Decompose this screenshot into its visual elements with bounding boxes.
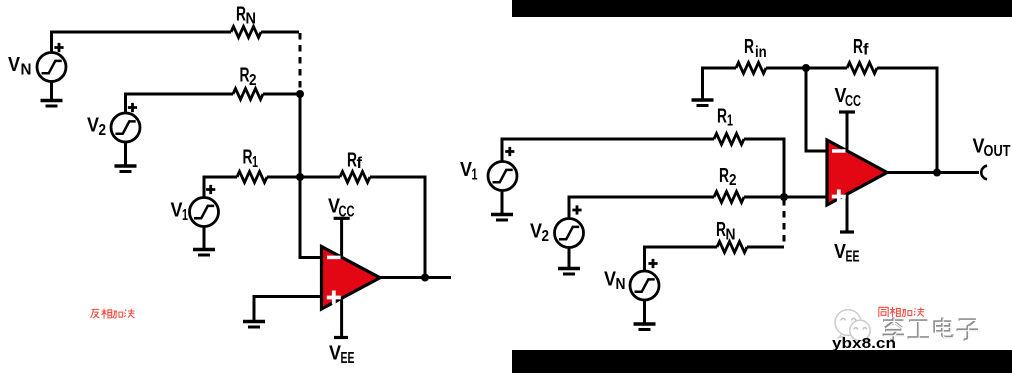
svg-text:R: R: [717, 106, 727, 128]
svg-text:CC: CC: [845, 93, 861, 110]
svg-text:f: f: [863, 42, 869, 59]
svg-text:N: N: [616, 276, 626, 293]
svg-text:1: 1: [727, 113, 733, 130]
svg-text:OUT: OUT: [984, 143, 1011, 160]
svg-text:f: f: [357, 155, 363, 172]
svg-text:1: 1: [252, 154, 258, 171]
svg-text:R: R: [744, 36, 754, 58]
svg-text:R: R: [853, 36, 863, 58]
svg-text:in: in: [755, 44, 767, 61]
svg-text:2: 2: [542, 228, 550, 245]
svg-text:N: N: [21, 62, 32, 79]
svg-text:2: 2: [99, 122, 107, 139]
svg-text:V: V: [8, 54, 21, 76]
svg-text:2: 2: [249, 72, 257, 89]
svg-text:1: 1: [472, 167, 478, 184]
svg-text:CC: CC: [339, 204, 355, 221]
svg-text:EE: EE: [341, 350, 355, 367]
svg-text:2: 2: [729, 172, 737, 189]
svg-text:EE: EE: [846, 249, 860, 266]
svg-text:ybx8.cn: ybx8.cn: [832, 335, 896, 352]
svg-text:N: N: [246, 11, 257, 28]
svg-text:R: R: [719, 165, 729, 187]
svg-text:1: 1: [182, 207, 188, 224]
svg-text:N: N: [726, 227, 736, 244]
